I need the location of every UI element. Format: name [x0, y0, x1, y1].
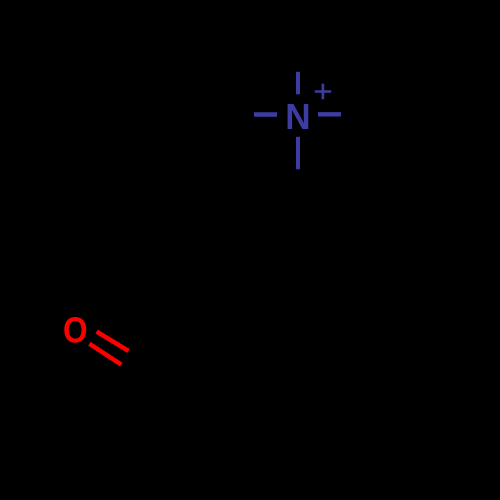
- svg-text:N: N: [285, 96, 310, 137]
- svg-text:O: O: [63, 310, 88, 351]
